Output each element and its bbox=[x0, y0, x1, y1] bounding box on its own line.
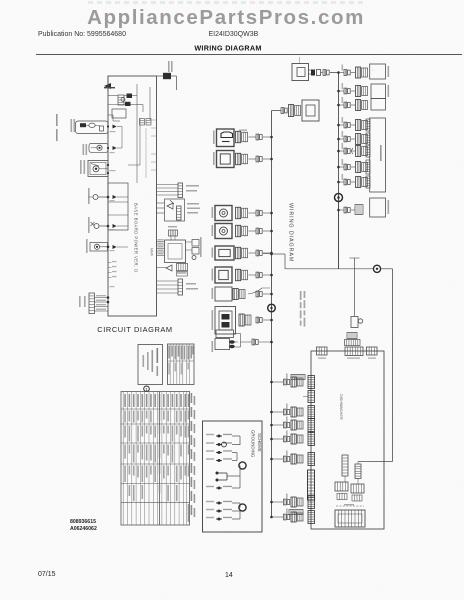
circled note 1 bbox=[144, 386, 150, 392]
box row latch bbox=[270, 381, 273, 384]
row5 vent bbox=[337, 138, 340, 141]
row9 user interface bbox=[337, 209, 340, 212]
ground ring E bbox=[239, 504, 246, 511]
thermostat chain bbox=[76, 121, 109, 134]
board internal wiring bbox=[121, 127, 123, 149]
ground lead wire bbox=[354, 258, 356, 316]
heater connector bbox=[216, 330, 234, 338]
dispenser module IC U1 bbox=[169, 230, 178, 236]
internal resistor R2 bbox=[355, 464, 361, 479]
plug leader line bbox=[299, 57, 301, 64]
internal connector pair bbox=[335, 482, 348, 491]
row1 box bbox=[370, 64, 386, 79]
wire color margin labels bbox=[56, 114, 58, 126]
door switch bbox=[89, 144, 108, 153]
diode D3 bbox=[113, 195, 117, 199]
power supply comb bbox=[177, 264, 188, 271]
wash motor connector bbox=[270, 212, 273, 215]
spray motor connector bbox=[270, 136, 273, 139]
notes box bbox=[138, 345, 163, 385]
wide pin connector J1 bbox=[336, 505, 364, 507]
spray motor M1 bbox=[94, 224, 99, 229]
bus pin labels bbox=[108, 262, 112, 264]
wire color legend table bbox=[168, 344, 195, 385]
fill valve harness row bbox=[337, 104, 340, 107]
ground row main2 bbox=[206, 517, 214, 518]
terminal plug P2 bbox=[302, 100, 319, 121]
vent assembly connector bbox=[270, 252, 273, 255]
parts table bbox=[121, 392, 190, 526]
power vertical runs bbox=[136, 84, 138, 183]
HTU turbidity sensor bbox=[165, 199, 185, 221]
ground row adapter bbox=[206, 509, 214, 510]
title rule bbox=[36, 54, 462, 56]
user interface connector bbox=[89, 293, 95, 314]
power plug P1 bbox=[292, 64, 309, 81]
pressure sensor connector bbox=[157, 184, 179, 186]
drain pump harness row bbox=[337, 71, 340, 74]
junction ring B bbox=[335, 194, 343, 202]
row2 box bbox=[371, 84, 385, 99]
box row aux1 bbox=[270, 501, 273, 504]
spray motor harness row bbox=[337, 90, 340, 93]
simulated rotated cell text bbox=[124, 394, 126, 407]
relay K2 box bbox=[112, 109, 126, 118]
box row ui bbox=[270, 458, 273, 461]
ground row fan cover bbox=[206, 486, 214, 487]
box top connector 1 bbox=[317, 347, 328, 355]
box row vent bbox=[308, 391, 315, 403]
cord connector bbox=[311, 70, 315, 76]
box row sensor bbox=[270, 411, 273, 414]
note text block bbox=[300, 291, 302, 300]
row6 turbidity bbox=[337, 150, 340, 153]
box row pump bbox=[270, 424, 273, 427]
row9 box bbox=[370, 198, 386, 217]
row3 box bbox=[371, 99, 385, 110]
box top connector 2 bbox=[345, 347, 363, 356]
board inner wire runs bbox=[145, 128, 147, 178]
ground row heater bbox=[206, 458, 214, 459]
board right-edge pin stubs bbox=[151, 119, 157, 121]
small combs K area bbox=[140, 119, 145, 126]
RH thermal connector bbox=[157, 280, 179, 282]
wash pump M2 bbox=[90, 243, 108, 252]
relay K1 compartments bbox=[108, 183, 128, 230]
row7 dispenser bbox=[337, 166, 340, 169]
internal resistor R1 bbox=[342, 455, 348, 476]
diode D2 bbox=[113, 146, 117, 150]
detergent dispenser bbox=[88, 161, 108, 177]
door switch connector bbox=[270, 319, 273, 322]
control box outline bbox=[311, 351, 384, 529]
wire bus to junction C bbox=[270, 253, 273, 256]
turbidity connector bbox=[270, 274, 273, 277]
box row fan bbox=[270, 438, 273, 441]
table right caption bbox=[191, 393, 193, 403]
ground row tub bbox=[206, 442, 214, 443]
drain pump connector bbox=[270, 158, 273, 161]
ground row ref bbox=[206, 434, 214, 435]
box top connector 3 bbox=[367, 347, 378, 355]
thermistor connector bbox=[270, 293, 273, 296]
ground ring F bbox=[239, 462, 246, 469]
row4 heater bbox=[337, 124, 340, 127]
circuit: main board outline BASE BOARD POWER bbox=[108, 76, 157, 316]
box row aux2 bbox=[270, 516, 273, 519]
row8 pressure bbox=[337, 181, 340, 184]
ground connector G bbox=[351, 317, 358, 328]
ground row wash pump bbox=[206, 450, 214, 451]
line-in arrow bbox=[104, 83, 111, 89]
scan noise row top bbox=[88, 1, 363, 4]
grounding scheme box bbox=[203, 421, 263, 532]
main bus upper bbox=[338, 73, 340, 270]
box row tall power bbox=[308, 470, 315, 500]
fill valve bbox=[93, 195, 98, 200]
diode D5 bbox=[113, 245, 117, 249]
power cord entry bbox=[157, 75, 164, 77]
line filter block bbox=[104, 87, 115, 89]
power cord label bbox=[168, 61, 170, 72]
IC right pins bbox=[192, 240, 199, 247]
transistor Q1 bbox=[166, 265, 172, 271]
diverter connector bbox=[270, 230, 273, 233]
junction ring A bbox=[268, 304, 276, 312]
left bus bbox=[271, 111, 273, 518]
junction ring C bbox=[373, 265, 380, 272]
ground row jbox bbox=[206, 501, 214, 502]
power jog bbox=[108, 114, 113, 116]
ground row main step bbox=[217, 472, 227, 474]
main harness tall box bbox=[370, 118, 386, 192]
wire to terminal box bbox=[272, 110, 282, 112]
diode D1 bbox=[113, 125, 117, 129]
diode D4 bbox=[113, 224, 117, 228]
